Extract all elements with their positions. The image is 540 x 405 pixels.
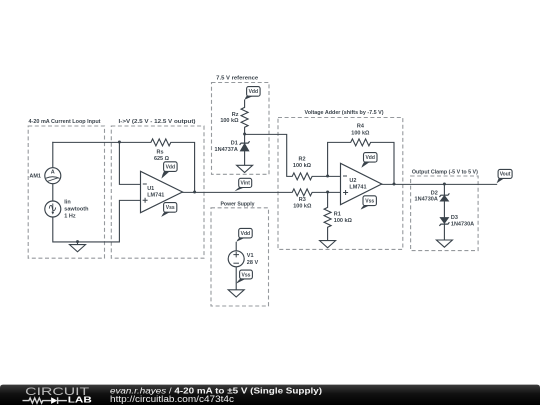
svg-text:1N4737A: 1N4737A	[215, 147, 238, 153]
svg-text:LM741: LM741	[349, 185, 366, 191]
svg-text:AM1: AM1	[29, 174, 41, 180]
svg-text:D3: D3	[451, 215, 458, 221]
svg-text:sawtooth: sawtooth	[64, 207, 89, 213]
svg-text:Vdd: Vdd	[365, 155, 374, 161]
svg-text:1 Hz: 1 Hz	[64, 214, 76, 220]
svg-text:1N4730A: 1N4730A	[451, 221, 474, 227]
svg-text:100 kΩ: 100 kΩ	[293, 204, 312, 210]
svg-text:Iin: Iin	[64, 200, 71, 206]
svg-text:http://circuitlab.com/c473t4c: http://circuitlab.com/c473t4c	[110, 394, 235, 404]
svg-text:LAB: LAB	[68, 395, 92, 405]
svg-text:625 Ω: 625 Ω	[154, 156, 170, 162]
svg-text:R3: R3	[299, 197, 306, 203]
svg-text:Vdd: Vdd	[249, 89, 258, 95]
svg-text:R2: R2	[298, 156, 305, 162]
svg-text:LM741: LM741	[147, 193, 164, 199]
svg-text:Vout: Vout	[500, 172, 511, 178]
svg-text:U2: U2	[349, 178, 356, 184]
svg-text:Vint: Vint	[241, 181, 251, 187]
svg-text:Vdd: Vdd	[166, 164, 175, 170]
svg-text:A: A	[51, 170, 55, 176]
svg-text:100 kΩ: 100 kΩ	[220, 118, 239, 124]
svg-text:100 kΩ: 100 kΩ	[351, 130, 370, 136]
svg-text:R1: R1	[334, 211, 341, 217]
svg-text:Vdd: Vdd	[241, 231, 250, 237]
svg-text:I->V (2.5 V - 12.5 V output): I->V (2.5 V - 12.5 V output)	[119, 119, 196, 125]
svg-text:Output Clamp (-5 V to 5 V): Output Clamp (-5 V to 5 V)	[412, 170, 478, 176]
svg-text:7.5 V reference: 7.5 V reference	[216, 76, 258, 82]
svg-text:D2: D2	[431, 190, 438, 196]
svg-text:Vss: Vss	[242, 272, 251, 278]
svg-text:28 V: 28 V	[247, 260, 259, 266]
svg-text:Rz: Rz	[232, 112, 239, 118]
svg-text:Power Supply: Power Supply	[221, 202, 255, 208]
svg-text:V1: V1	[247, 253, 254, 259]
svg-text:D1: D1	[231, 140, 238, 146]
svg-text:Voltage Adder (shifts by -7.5: Voltage Adder (shifts by -7.5 V)	[305, 110, 384, 116]
svg-text:1N4730A: 1N4730A	[415, 197, 438, 203]
svg-text:4-20 mA Current Loop Input: 4-20 mA Current Loop Input	[29, 119, 101, 125]
svg-text:Vss: Vss	[166, 205, 175, 211]
svg-text:U1: U1	[147, 186, 154, 192]
svg-text:100 kΩ: 100 kΩ	[293, 163, 312, 169]
svg-text:100 kΩ: 100 kΩ	[334, 218, 353, 224]
svg-text:R4: R4	[357, 123, 365, 129]
svg-text:Vss: Vss	[365, 199, 374, 205]
svg-text:Rs: Rs	[156, 150, 163, 156]
